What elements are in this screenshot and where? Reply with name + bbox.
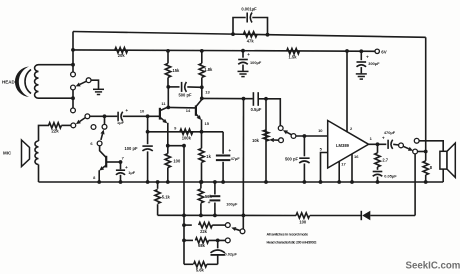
switch S3 open contact xyxy=(91,125,96,130)
ground near S1a xyxy=(93,88,104,90)
node pin13 lower xyxy=(200,97,204,101)
svg-text:14: 14 xyxy=(186,108,191,113)
node Q2 emitter join xyxy=(166,144,170,148)
node 47k right xyxy=(266,33,270,37)
wire S2 to node xyxy=(90,115,103,117)
svg-text:47μF: 47μF xyxy=(231,156,241,161)
capacitor C1 1uF xyxy=(117,112,119,121)
capacitor C5 47uF xyxy=(222,132,224,154)
resistor R12 100 xyxy=(296,213,310,218)
transistor Q2 bar xyxy=(159,108,161,120)
wire pin13 right xyxy=(202,97,253,99)
head winding L1 xyxy=(35,65,39,98)
wire right vertical from top bus xyxy=(425,37,427,151)
node 56k top xyxy=(199,180,203,184)
node head-top xyxy=(71,63,75,67)
node C7 gnd xyxy=(303,180,307,184)
svg-text:100: 100 xyxy=(173,158,181,163)
switch S3 lower contact xyxy=(97,141,102,146)
capacitor C12 0.001uF loop xyxy=(233,18,246,35)
svg-text:13: 13 xyxy=(205,89,210,94)
wire record col xyxy=(242,99,244,229)
capacitor C9 470uF xyxy=(387,140,389,149)
node 500pF tap xyxy=(166,85,170,89)
node R8 gnd xyxy=(166,180,170,184)
svg-text:500 pF: 500 pF xyxy=(285,156,298,161)
switch S2 common contact xyxy=(85,114,90,119)
node pin17 gnd xyxy=(337,180,341,184)
wire output xyxy=(369,143,387,145)
wire collector Q1 xyxy=(100,146,107,158)
speaker SPK xyxy=(440,151,447,169)
wire C6 right xyxy=(259,99,280,126)
switch S5 contact play xyxy=(414,138,419,143)
svg-text:HEAD: HEAD xyxy=(2,80,16,85)
switch S4 contact xyxy=(291,134,296,139)
wire C2 down xyxy=(120,175,122,182)
svg-text:+: + xyxy=(382,137,385,142)
wire speaker bottom xyxy=(442,169,444,182)
resistor R15 22k xyxy=(184,224,192,226)
resistor R1 20k xyxy=(115,48,128,53)
wire S4 to amp xyxy=(296,135,328,137)
node pin9 left xyxy=(146,130,150,134)
transistor Q3 bar xyxy=(195,105,197,115)
svg-text:5.1k: 5.1k xyxy=(162,194,171,199)
wire pin10 tap down xyxy=(147,116,149,132)
resistor R8 100 xyxy=(167,146,169,154)
wire pot col xyxy=(265,99,267,182)
svg-text:2.7: 2.7 xyxy=(382,158,388,163)
resistor R10 2.7 xyxy=(377,144,379,153)
svg-text:SeekIC.com: SeekIC.com xyxy=(406,261,460,272)
resistor R11 8 xyxy=(425,152,427,161)
svg-text:47k: 47k xyxy=(247,38,255,43)
capacitor C2 1uF bypass xyxy=(116,169,125,171)
node pin10 tap xyxy=(146,114,150,118)
svg-text:1μF: 1μF xyxy=(128,170,136,175)
wire pin11 to Q3 base xyxy=(168,106,196,109)
node pin7 xyxy=(119,160,123,164)
pot wiper terminal xyxy=(279,138,284,143)
tape head inner arc xyxy=(25,70,31,94)
node output xyxy=(376,142,380,146)
node amp input tap xyxy=(303,134,307,138)
node C3 gnd xyxy=(146,180,150,184)
svg-text:100μF: 100μF xyxy=(250,60,262,65)
svg-text:1.5k: 1.5k xyxy=(289,55,298,60)
wire pin15 to C5 xyxy=(202,131,224,133)
transistor Q2 emitter xyxy=(160,117,164,120)
node supply-left xyxy=(71,48,75,52)
transistor Q3 emitter xyxy=(196,114,198,117)
wire rail to R12 xyxy=(158,214,296,216)
svg-text:+: + xyxy=(247,53,250,58)
node C5 gnd xyxy=(221,180,225,184)
svg-text:+: + xyxy=(125,109,128,114)
wire ground bus xyxy=(39,181,444,183)
svg-text:1k: 1k xyxy=(206,154,211,159)
svg-text:6V: 6V xyxy=(381,49,386,54)
svg-text:16: 16 xyxy=(354,154,359,159)
pot wiper arrow xyxy=(274,139,279,141)
capacitor C3 100pF xyxy=(147,132,149,144)
wire mic bottom lead xyxy=(38,165,40,183)
svg-text:1.8k: 1.8k xyxy=(204,67,213,72)
resistor R16 68k xyxy=(184,239,193,241)
terminal 6V xyxy=(375,49,379,53)
wire pin13 col xyxy=(201,87,203,98)
svg-text:0.02μF: 0.02μF xyxy=(225,251,238,256)
switch S6 arm xyxy=(236,229,241,231)
capacitor C12 plates xyxy=(246,13,248,23)
wire cap to Q1 base xyxy=(123,115,160,117)
svg-text:17: 17 xyxy=(341,162,346,167)
svg-text:Head characteristic 200 mH/300: Head characteristic 200 mH/300Ω xyxy=(267,240,317,244)
resistor R17 5.6k xyxy=(184,263,193,265)
wire play to speaker xyxy=(419,141,443,152)
node output bus xyxy=(424,150,428,154)
svg-text:100μF: 100μF xyxy=(226,201,238,206)
svg-text:100k: 100k xyxy=(182,135,192,140)
wire head bottom xyxy=(39,97,74,99)
switch S5 arm xyxy=(403,146,409,149)
node pot top xyxy=(264,97,268,101)
resistor R13 5.1k xyxy=(157,182,159,189)
node Q1 emitter xyxy=(97,180,101,184)
switch S5 pole xyxy=(399,143,404,148)
node input join xyxy=(103,114,107,118)
wire pin5 xyxy=(321,153,328,183)
wire supply bus xyxy=(73,50,377,51)
svg-text:15: 15 xyxy=(205,121,210,126)
node C8 gnd xyxy=(376,180,380,184)
diode D1 xyxy=(370,215,415,217)
microphone symbol xyxy=(22,140,30,167)
svg-text:5.6k: 5.6k xyxy=(196,268,205,273)
node 1.8k top xyxy=(200,49,204,53)
node base col join xyxy=(182,144,186,148)
svg-text:470μF: 470μF xyxy=(384,130,396,135)
wire Q2 collector xyxy=(160,107,168,110)
switch S4 pole xyxy=(278,126,283,131)
wire pin9 bus xyxy=(148,131,202,133)
wire to ground stub xyxy=(91,80,99,89)
capacitor C7 500pF xyxy=(303,136,305,156)
node pin2 top xyxy=(345,49,349,53)
wire top feedback bus xyxy=(73,32,426,38)
node record col rail xyxy=(242,214,246,218)
wire pin11 col xyxy=(167,87,169,108)
switch S1a contact upper xyxy=(71,72,76,77)
resistor R2 1.5k xyxy=(287,49,300,54)
capacitor C8 0.05uF xyxy=(373,171,383,173)
wire S5 to node xyxy=(418,151,426,153)
tape head gap crescent xyxy=(15,67,29,98)
wire Q3 emitter down xyxy=(201,119,203,131)
svg-text:0.5μF: 0.5μF xyxy=(251,107,262,112)
node pin15 xyxy=(200,130,204,134)
svg-text:+: + xyxy=(228,149,231,154)
wire node down to S3 xyxy=(104,116,106,124)
node 56k rail xyxy=(199,214,203,218)
wire Q1 base xyxy=(106,161,120,163)
capacitor C11 300uF xyxy=(360,51,362,60)
wire eq col xyxy=(183,145,185,264)
switch S1a pole xyxy=(71,85,76,90)
capacitor C4 500pF xyxy=(168,86,180,88)
ground C11 xyxy=(356,73,367,75)
wire pin17 xyxy=(338,162,340,183)
node C14 top xyxy=(216,239,220,243)
svg-text:10k: 10k xyxy=(252,138,260,143)
node R9 gnd xyxy=(200,180,204,184)
potentiometer 10k xyxy=(263,130,268,141)
switch S3 arm xyxy=(101,134,103,140)
node R11 gnd xyxy=(424,180,428,184)
switch S6 contact1 xyxy=(225,223,230,228)
node record col top xyxy=(242,97,246,101)
switch S3 upper contact xyxy=(102,124,107,129)
node 100uF supply xyxy=(241,49,245,53)
node pot gnd xyxy=(264,180,268,184)
resistor R7 100k xyxy=(180,129,193,134)
switch S1b contact lower xyxy=(71,108,76,113)
wire emitter node to R8 xyxy=(168,145,184,147)
wire pin7 down xyxy=(120,162,122,169)
svg-text:0.05μF: 0.05μF xyxy=(384,173,397,178)
svg-text:1μF: 1μF xyxy=(117,120,125,125)
wire Q3 collector xyxy=(196,98,202,106)
svg-text:68k: 68k xyxy=(198,243,206,248)
switch S2 mic contact xyxy=(71,123,76,128)
resistor R5 15k xyxy=(167,51,169,63)
svg-text:100 pF: 100 pF xyxy=(125,146,138,151)
node 47k left xyxy=(231,32,235,36)
svg-text:100: 100 xyxy=(299,219,307,224)
wire head top xyxy=(39,64,74,66)
resistor R9 1k xyxy=(201,132,203,149)
node head-bottom xyxy=(71,96,75,100)
wire input to cap xyxy=(105,115,118,117)
switch S2 arm xyxy=(80,118,86,122)
resistor R6 1.8k xyxy=(201,51,203,63)
ground C10 xyxy=(238,70,249,72)
svg-text:LM389: LM389 xyxy=(336,143,350,148)
switch S6 pole xyxy=(240,229,245,234)
wire C9 to switch xyxy=(393,143,399,146)
resistor 22k mic xyxy=(49,123,62,128)
wire S1a pole down xyxy=(72,90,74,108)
svg-text:+: + xyxy=(208,201,211,206)
node eq col rail xyxy=(182,214,186,218)
wire 22k to switch xyxy=(61,124,71,126)
node eq row2 xyxy=(182,239,186,243)
svg-text:10: 10 xyxy=(140,108,145,113)
node C2 gnd xyxy=(119,180,123,184)
switch S1a ground contact xyxy=(86,78,91,83)
wire mic top lead xyxy=(39,125,50,141)
capacitor C13 100uF xyxy=(214,182,216,195)
node 15k top xyxy=(166,49,170,53)
transistor Q1 emitter xyxy=(103,165,106,168)
wire pin16 xyxy=(351,154,353,182)
node pin11 xyxy=(166,106,170,110)
svg-text:All switches in record mode: All switches in record mode xyxy=(267,232,309,236)
wire pin2 supply xyxy=(346,51,348,132)
svg-text:15k: 15k xyxy=(173,68,181,73)
node pin16 gnd xyxy=(350,180,354,184)
svg-text:10: 10 xyxy=(318,128,323,133)
svg-text:+: + xyxy=(366,55,369,60)
resistor R3 47k xyxy=(243,32,257,37)
switch S6 contact2 xyxy=(225,238,230,243)
svg-text:300μF: 300μF xyxy=(368,61,380,66)
svg-text:500 pF: 500 pF xyxy=(179,93,192,98)
wire record drive vertical xyxy=(414,154,416,216)
node C13 rail xyxy=(213,214,217,218)
mic winding L2 xyxy=(35,141,39,165)
node pin5 gnd xyxy=(319,180,323,184)
capacitor C14 0.02uF xyxy=(217,240,219,248)
node 100uF2 top xyxy=(213,180,217,184)
svg-text:0.001μF: 0.001μF xyxy=(241,7,257,12)
node pin13 xyxy=(200,85,204,89)
transistor Q1 bar xyxy=(105,156,107,168)
svg-text:MIC: MIC xyxy=(3,151,12,156)
wire left vertical xyxy=(72,32,74,73)
switch S4 arm xyxy=(287,132,291,134)
wire Q2 emitter down xyxy=(167,123,169,146)
capacitor C10 100uF xyxy=(242,51,244,58)
svg-text:20k: 20k xyxy=(118,53,126,58)
node eq row1 xyxy=(182,223,186,227)
capacitor C6 0.5uF xyxy=(252,92,254,106)
op-amp U1 LM389 xyxy=(328,121,369,169)
switch S5 contact record xyxy=(413,149,418,154)
switch S1a arm to ground xyxy=(80,81,87,84)
resistor R14 56k xyxy=(200,182,202,189)
svg-text:22k: 22k xyxy=(51,129,59,134)
node 5.1k top xyxy=(156,180,160,184)
node 300uF supply xyxy=(359,49,363,53)
svg-text:22k: 22k xyxy=(200,229,208,234)
wire Q1 emitter down xyxy=(98,170,100,182)
